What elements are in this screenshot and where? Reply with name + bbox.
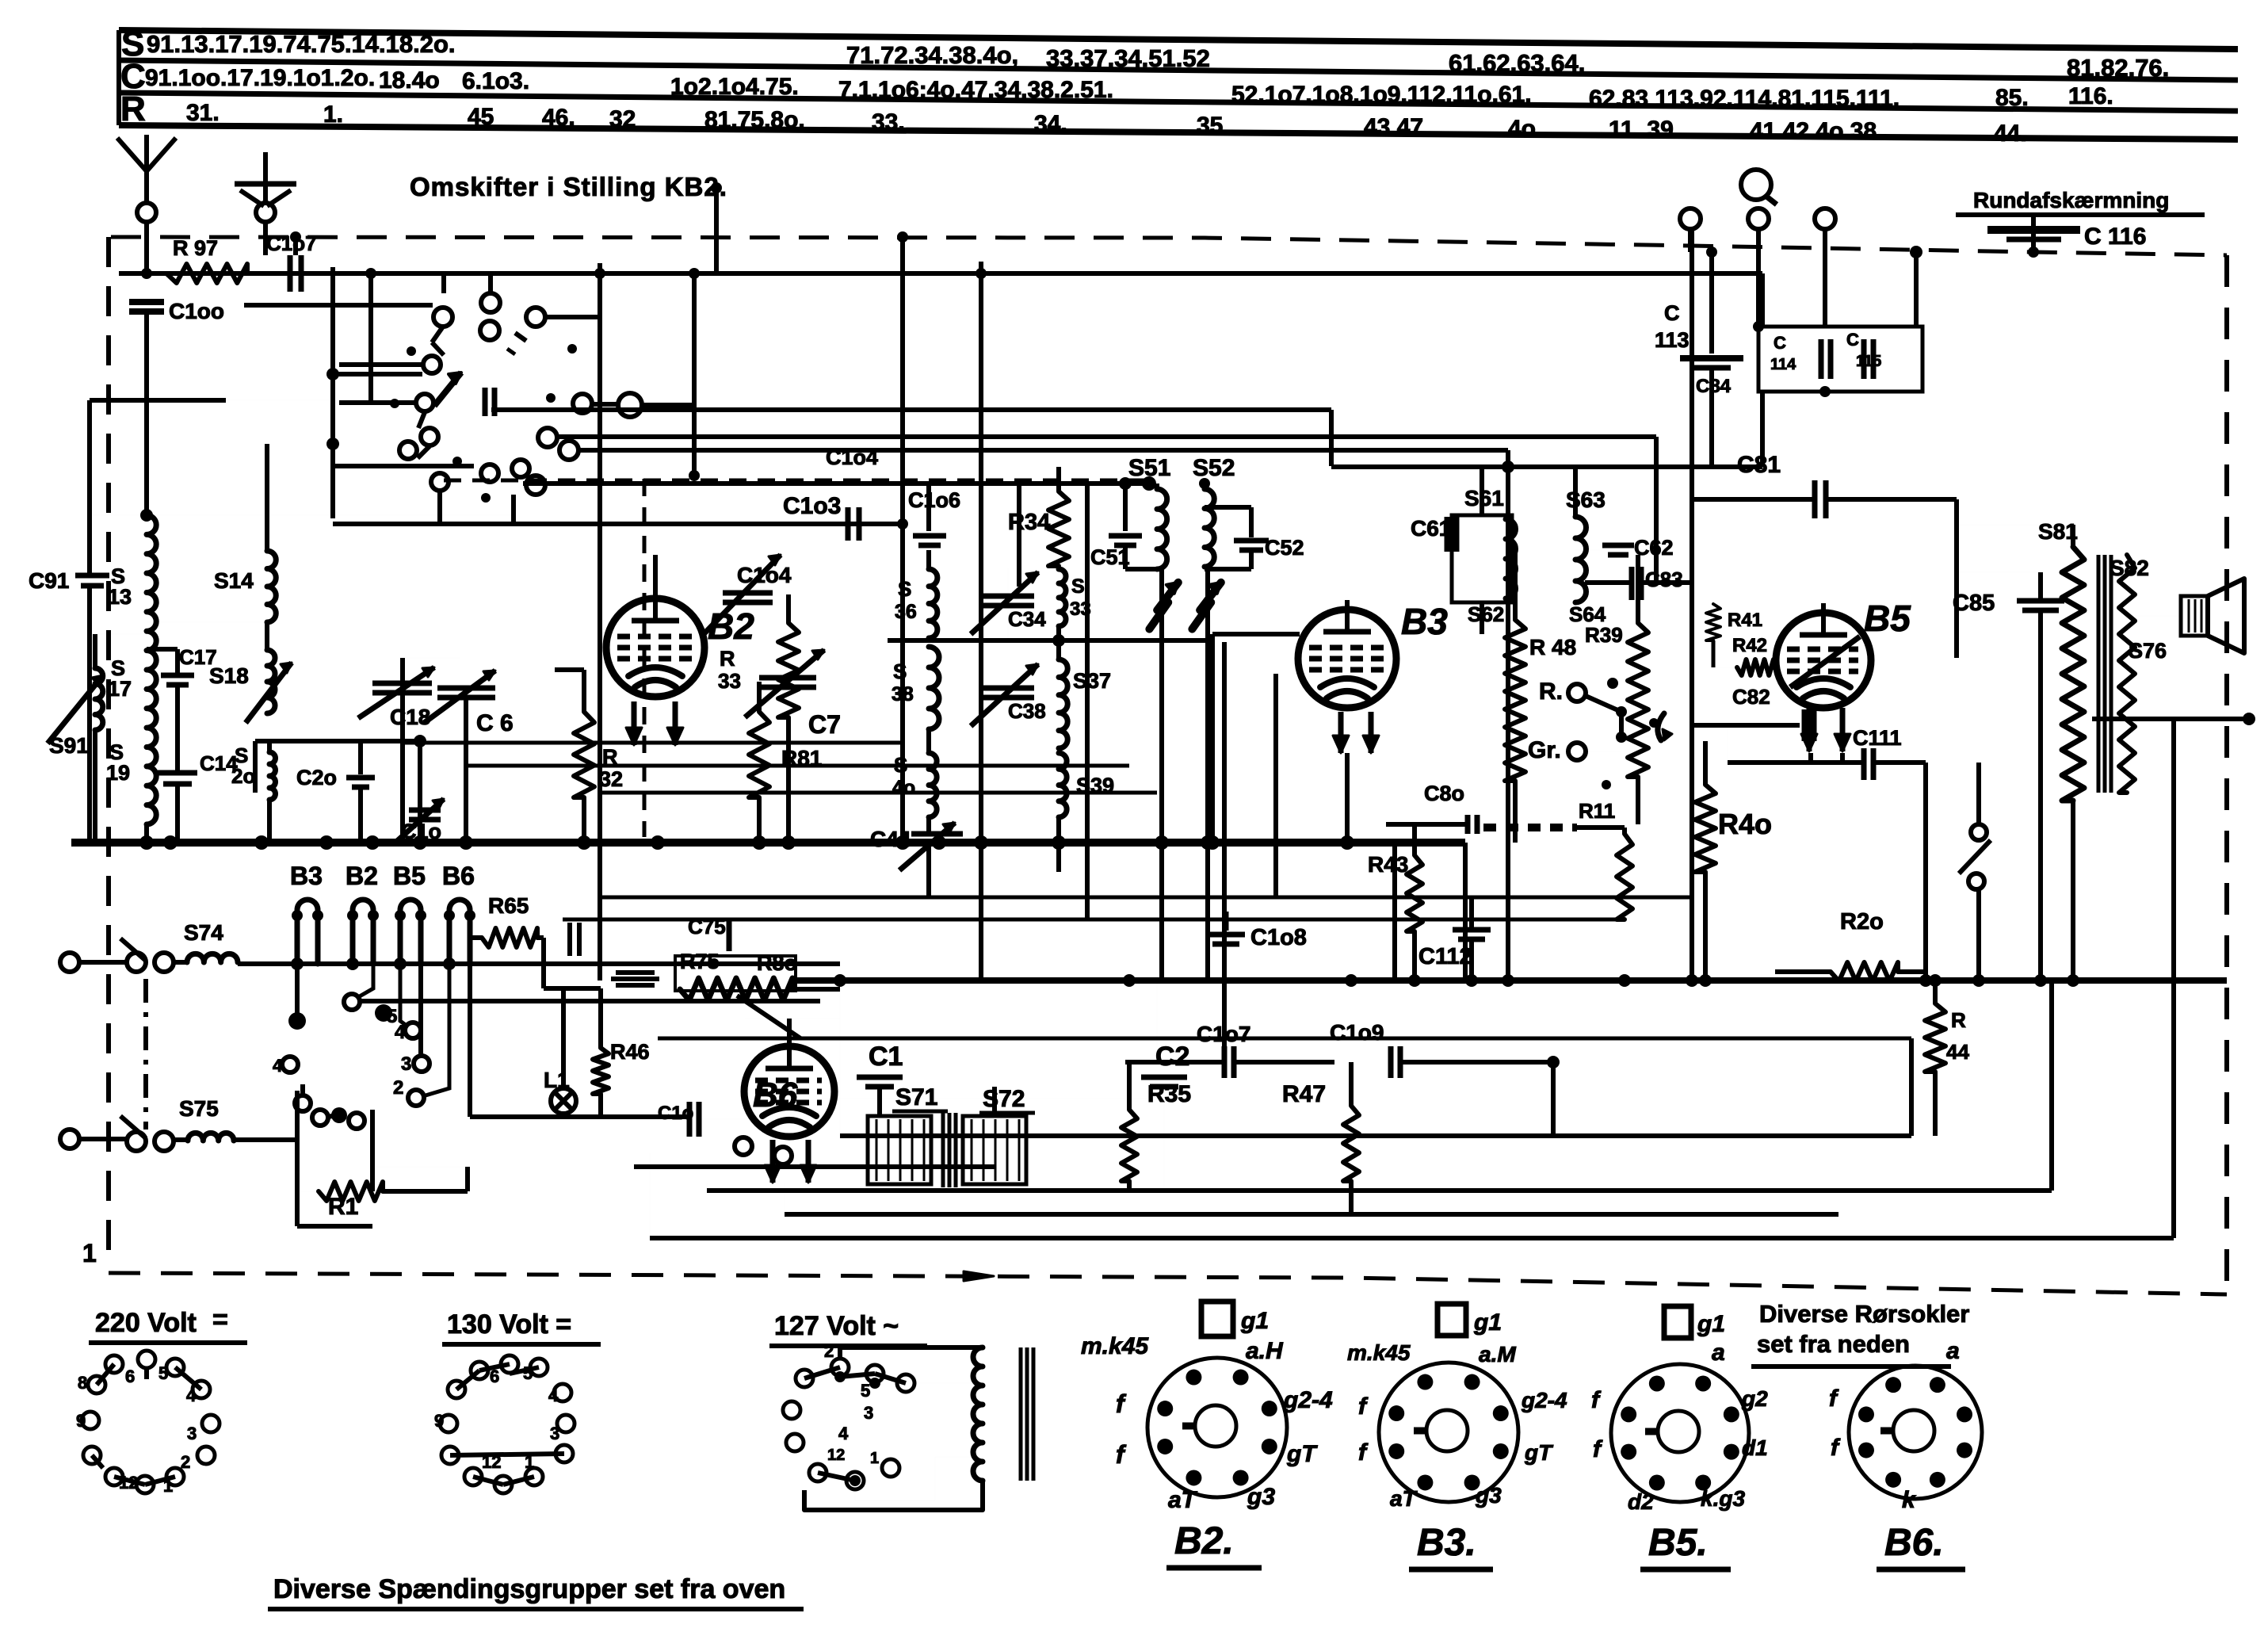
wire vertical x2135 [1690,229,1694,980]
wire bus y517 [491,407,1331,412]
svg-text:6.1o3.: 6.1o3. [462,68,529,94]
wire vertical x757 [598,263,602,843]
svg-text:C1: C1 [869,1042,903,1072]
capacitors C114 C115 box [1758,327,1922,392]
svg-text:S76: S76 [2129,639,2167,663]
svg-text:62.83 113.92.114.81.115.111.: 62.83 113.92.114.81.115.111. [1589,86,1900,112]
svg-text:4: 4 [186,1386,197,1405]
wire bus y589 [1331,464,1762,469]
svg-text:38: 38 [892,683,914,705]
svg-text:S72: S72 [983,1086,1025,1112]
svg-text:set fra neden: set fra neden [1757,1330,1910,1358]
svg-text:85.: 85. [1995,85,2029,111]
svg-text:33.: 33. [872,109,905,136]
tube B2 [606,598,704,697]
svg-text:g1: g1 [1697,1311,1725,1337]
wire switch left rail [330,267,335,518]
svg-text:31.: 31. [186,100,220,126]
pin g1 square B3 [1438,1304,1466,1336]
svg-text:Gr.: Gr. [1528,737,1561,763]
wire bus y1237 [794,977,2227,984]
svg-text:gT: gT [1286,1441,1318,1467]
svg-text:36: 36 [895,601,917,623]
svg-text:3: 3 [187,1424,197,1443]
svg-text:11. 39.: 11. 39. [1609,117,1680,143]
wire vertical x1545 [1222,642,1227,1046]
capacitor C44 variable [911,831,963,837]
svg-text:C7: C7 [808,710,841,739]
svg-text:C1o6: C1o6 [908,488,960,512]
switch bar contact [483,388,488,416]
svg-text:Diverse Spændingsgrupper set f: Diverse Spændingsgrupper set fra oven [273,1574,785,1604]
svg-text:B6: B6 [442,862,475,890]
svg-text:34.: 34. [1034,111,1067,137]
svg-text:1: 1 [525,1452,534,1472]
svg-text:81.82.76.: 81.82.76. [2067,54,2169,82]
svg-text:a: a [1712,1340,1725,1366]
svg-text:B2: B2 [346,862,378,890]
svg-text:g2-4: g2-4 [1521,1388,1567,1412]
wire power y1532 [785,1212,1838,1217]
svg-text:R4o: R4o [1718,808,1772,840]
socket 220V pins [105,1355,123,1373]
socket 130V pins [471,1362,488,1379]
svg-text:C18: C18 [390,705,430,729]
transformer 127V winding [973,1347,983,1481]
svg-text:g3: g3 [1247,1484,1275,1510]
tube B5 cathode arrows [1807,708,1812,751]
coil S91 variable [95,668,103,730]
svg-text:C82: C82 [1732,685,1770,709]
coil S74 [187,954,238,962]
svg-text:52.1o7.1o8.1o9.112.11o.61.: 52.1o7.1o8.1o9.112.11o.61. [1231,82,1532,108]
switch S right [1971,824,1987,840]
resistor R97 [166,264,247,283]
svg-text:2: 2 [393,1077,403,1099]
border dash-dot segment [143,979,148,1130]
svg-text:g2-4: g2-4 [1283,1387,1333,1413]
svg-text:R 97: R 97 [173,236,218,260]
svg-text:B5: B5 [1864,598,1911,639]
svg-text:8: 8 [78,1373,87,1393]
svg-text:C1o9: C1o9 [1330,1020,1384,1045]
wire bus y1310 [658,1037,1911,1041]
wires terminal drops [1688,229,1693,252]
coil S37 [1059,659,1067,748]
svg-text:4o: 4o [892,777,915,799]
svg-text:C52: C52 [1265,536,1304,560]
wire power y1433 [840,1133,1911,1138]
coil S20 tank [255,739,420,743]
parts value table [119,30,2238,49]
svg-text:114: 114 [1770,356,1796,373]
svg-text:a.H: a.H [1246,1338,1284,1364]
node coil column top [140,509,153,522]
capacitor C10 variable [409,808,441,813]
coil S18 [267,650,275,713]
svg-text:12: 12 [827,1447,845,1464]
wire power y1502 [707,1188,2052,1193]
wire bus y1132 [602,896,1692,900]
coil S40 [929,753,937,817]
svg-text:S74: S74 [184,920,223,945]
svg-text:S91: S91 [49,733,89,758]
svg-text:S63: S63 [1566,487,1606,512]
svg-text:gT: gT [1524,1440,1554,1465]
wire vertical x1903 [1506,467,1510,980]
svg-text:C91: C91 [29,568,69,593]
svg-text:R1: R1 [328,1194,358,1220]
svg-text:R.: R. [1539,678,1563,705]
svg-text:S71: S71 [895,1084,937,1110]
resistor R40 [1695,785,1716,872]
svg-text:33.37.34.51.52: 33.37.34.51.52 [1046,44,1210,72]
svg-text:B3.: B3. [1417,1522,1476,1564]
svg-text:S52: S52 [1193,455,1235,481]
svg-text:3: 3 [401,1053,411,1075]
svg-text:R42: R42 [1732,635,1767,656]
svg-text:=: = [212,1305,228,1335]
svg-text:C38: C38 [1008,699,1046,723]
svg-text:C1o4: C1o4 [826,445,878,469]
capacitor C62 [1602,543,1634,549]
switch S76 wire [2092,717,2251,721]
capacitor C6 variable [437,686,495,691]
svg-text:C85: C85 [1953,591,1995,616]
tube B6 [744,1046,834,1137]
svg-text:B6.: B6. [1884,1522,1944,1564]
svg-text:S18: S18 [209,663,249,688]
svg-text:R34: R34 [1008,510,1050,535]
svg-text:C34: C34 [1008,607,1046,631]
resistor R33 [778,623,799,717]
ground symbol [263,152,268,203]
svg-text:R35: R35 [1147,1081,1191,1107]
svg-text:44: 44 [1946,1040,1969,1064]
svg-text:32: 32 [599,767,623,791]
tube B3 [1298,610,1396,708]
svg-text:aT: aT [1168,1487,1198,1513]
svg-text:R: R [1951,1008,1966,1032]
coil S52 [1205,489,1214,567]
tank S52 C52 [1202,484,1207,489]
resistor R81 [749,712,769,797]
svg-text:12: 12 [119,1473,138,1493]
antenna terminal [137,203,156,222]
switch S74 [60,953,79,972]
resistor R48 [1505,620,1525,781]
shield border dashed top [111,237,2227,255]
shield border dashed left [106,237,111,1268]
svg-text:32: 32 [609,106,636,132]
coil S38 [929,647,939,729]
svg-text:116.: 116. [2068,83,2113,109]
wire vertical x876 [692,272,697,476]
tube B5 [1776,613,1871,708]
svg-text:m.k45: m.k45 [1081,1333,1149,1359]
svg-text:44.: 44. [1994,120,2027,147]
svg-text:aT: aT [1390,1486,1418,1511]
svg-text:C 116: C 116 [2084,224,2146,250]
svg-text:C 6: C 6 [476,710,514,736]
svg-text:C111: C111 [1853,726,1902,750]
svg-text:C2o: C2o [296,766,337,789]
svg-text:3: 3 [864,1403,873,1423]
capacitor C38 variable [983,686,1034,691]
svg-text:113: 113 [1655,328,1690,352]
svg-text:91.13.17.19.74.75.14.18.2o.: 91.13.17.19.74.75.14.18.2o. [147,30,456,58]
svg-text:2: 2 [824,1341,834,1361]
capacitor C100 [129,299,164,305]
svg-text:C1o7: C1o7 [1197,1022,1250,1046]
svg-text:C83: C83 [1645,568,1683,591]
svg-text:130 Volt =: 130 Volt = [447,1309,571,1340]
svg-text:6: 6 [125,1367,135,1386]
antenna [144,171,149,203]
capacitor C7 variable [759,675,816,681]
svg-text:k: k [1902,1487,1916,1513]
resistor R1 [319,1182,383,1201]
svg-text:Rundafskærmning: Rundafskærmning [1973,188,2169,212]
svg-text:4: 4 [273,1056,283,1076]
svg-text:81.75.8o.: 81.75.8o. [704,107,805,133]
svg-text:S14: S14 [214,568,254,593]
svg-text:S: S [893,659,907,683]
svg-text:g1: g1 [1473,1309,1502,1336]
svg-text:1: 1 [163,1476,173,1496]
svg-text:5: 5 [387,1006,397,1027]
svg-text:R11: R11 [1579,799,1615,823]
svg-text:R39: R39 [1585,623,1623,647]
switch S75 [60,1130,79,1149]
capacitor C107b line [1156,980,1158,1062]
chassis bus [71,839,1465,847]
svg-text:S62: S62 [1468,602,1504,626]
wire top centre vertical [714,188,719,273]
svg-text:S: S [898,577,911,601]
core adjust arrows [1149,583,1178,629]
svg-text:B3: B3 [1401,601,1448,642]
svg-text:9: 9 [76,1411,86,1431]
svg-text:k.g3: k.g3 [1701,1486,1745,1511]
svg-text:Omskifter i Stilling KB2.: Omskifter i Stilling KB2. [410,172,727,201]
svg-text:C81: C81 [1737,452,1781,478]
coil S36 [929,569,937,638]
wire bus y1160 [563,918,1625,922]
ground terminal [256,203,275,222]
pin g1 square B2 [1201,1302,1233,1336]
terminals top right [1680,208,1701,229]
svg-text:43.47: 43.47 [1364,114,1423,140]
capacitor C18 variable [372,681,432,686]
svg-text:S: S [1071,575,1085,598]
svg-text:R46: R46 [610,1040,650,1064]
svg-text:R: R [720,647,735,671]
svg-text:C: C [1846,330,1859,350]
svg-text:B2.: B2. [1174,1520,1234,1562]
tube socket B5 [1611,1364,1749,1502]
svg-text:2o: 2o [231,764,255,788]
svg-text:B5.: B5. [1648,1522,1708,1564]
svg-text:C2: C2 [1155,1042,1189,1072]
svg-text:115: 115 [1856,353,1881,370]
svg-text:C1o8: C1o8 [1250,925,1307,950]
wire power y1562 [650,1236,2174,1240]
svg-text:71.72.34.38.4o,: 71.72.34.38.4o, [846,41,1018,69]
svg-text:18.4o: 18.4o [379,67,440,94]
speaker [2181,596,2208,636]
tube socket B6 [1849,1366,1982,1499]
resistor R34 [1048,491,1069,566]
capacitor C34 variable [983,594,1034,599]
svg-text:R: R [120,90,146,128]
svg-text:C1o3: C1o3 [783,493,841,519]
wire bus y568 [578,448,1508,453]
svg-text:C8o: C8o [1424,782,1464,805]
rotary switch contacts [441,272,446,293]
capacitor C17 [147,647,178,652]
svg-text:R47: R47 [1282,1081,1326,1107]
tube socket B3 [1379,1363,1518,1502]
svg-text:R2o: R2o [1840,909,1884,935]
inner dashed box [643,479,647,837]
wire top bus [119,271,1762,276]
coil S75 [188,1133,234,1141]
wire vertical x1139 [900,237,905,843]
svg-text:m.k45: m.k45 [1347,1340,1411,1365]
tube B3 cathode arrows [1338,712,1344,753]
resistor R47 [1343,1106,1359,1181]
svg-text:B5: B5 [393,862,426,890]
capacitor C103 [745,522,903,526]
border arrow [964,1271,994,1281]
pin g1 square B5 [1664,1306,1691,1338]
svg-text:3: 3 [550,1424,559,1443]
wire bus y610 [523,481,1149,486]
coil S13 S17 S19 [147,515,156,824]
svg-text:C51: C51 [1090,545,1130,569]
svg-text:5: 5 [523,1363,533,1383]
resistor R43 [1407,855,1422,931]
svg-text:4: 4 [548,1386,559,1405]
svg-text:4: 4 [838,1424,849,1443]
svg-text:C75: C75 [688,915,726,938]
svg-text:R41: R41 [1728,610,1762,631]
svg-text:33: 33 [718,669,741,693]
wire antenna drop [144,222,149,273]
svg-text:2: 2 [181,1452,190,1472]
svg-text:61.62.63.64.: 61.62.63.64. [1449,49,1585,77]
svg-text:C: C [1664,301,1680,325]
svg-text:B6: B6 [753,1076,798,1114]
svg-text:5: 5 [158,1363,168,1383]
svg-text:C84: C84 [1696,376,1732,397]
svg-text:g3: g3 [1475,1483,1502,1508]
svg-text:a: a [1946,1338,1960,1364]
shield border dashed right [2224,255,2229,1294]
svg-text:R65: R65 [488,893,529,918]
svg-text:g2: g2 [1741,1386,1768,1411]
tube socket B2 [1147,1358,1287,1497]
svg-text:127 Volt ~: 127 Volt ~ [774,1311,899,1341]
wire junction drop [368,273,373,400]
svg-text:g1: g1 [1240,1308,1269,1334]
coil S61 [1506,519,1516,598]
svg-text:45: 45 [468,104,494,130]
svg-text:1: 1 [82,1239,97,1267]
capacitor C104 variable [723,591,773,596]
svg-text:a.M: a.M [1479,1342,1516,1367]
wire bus y551 [557,434,1656,439]
resistor R35 [1121,1110,1137,1181]
svg-text:4o: 4o [1508,116,1536,142]
capacitor C107 [288,255,293,292]
pickup symbol Q [1741,170,1771,200]
svg-text:9: 9 [434,1411,444,1431]
svg-text:17: 17 [108,677,132,701]
svg-text:5: 5 [861,1381,870,1401]
svg-text:6: 6 [490,1367,499,1386]
wire junction dashed [1910,246,1922,258]
wire vertical x1238 [979,262,983,980]
svg-text:41.42 4o.38: 41.42 4o.38 [1750,118,1877,144]
svg-text:35: 35 [1197,113,1223,139]
jack contact wires [295,964,300,1017]
svg-text:19: 19 [106,761,130,785]
svg-text:S37: S37 [1073,669,1111,693]
svg-text:R 48: R 48 [1529,635,1576,659]
svg-text:46.: 46. [542,105,575,131]
svg-text:1.: 1. [323,101,343,128]
capacitor C75 small [567,923,572,956]
svg-text:1o2.1o4.75.: 1o2.1o4.75. [670,74,799,100]
svg-text:12: 12 [482,1452,501,1472]
coil S51 [1157,489,1167,569]
svg-text:91.1oo.17.19.1o1.2o.: 91.1oo.17.19.1o1.2o. [145,65,375,91]
svg-text:220 Volt: 220 Volt [95,1308,197,1338]
switch wiper arrow [434,373,461,406]
coil S63 [1575,517,1586,602]
coil S14 [267,551,276,622]
tank S61 S62 [1452,515,1512,602]
wire left block top [90,398,226,403]
resistor R39 [1628,623,1648,777]
tube B6 cathode arrows [770,1140,776,1183]
svg-text:7.1.1o6:4o.47.34.38.2.51.: 7.1.1o6:4o.47.34.38.2.51. [838,77,1113,103]
resistor R32 [574,712,594,797]
svg-text:C112: C112 [1418,944,1472,969]
svg-text:C1oo: C1oo [169,299,224,323]
coil S39 [1059,753,1067,817]
svg-text:B3: B3 [290,862,323,890]
resistor R46 [593,1048,609,1094]
svg-text:d2: d2 [1628,1489,1654,1514]
tube B2 cathode arrows [632,701,637,745]
svg-text:1: 1 [870,1450,879,1467]
svg-text:R43: R43 [1368,852,1408,877]
coil S33 [1059,569,1066,626]
svg-text:C: C [1774,333,1786,353]
svg-text:d1: d1 [1742,1435,1768,1460]
svg-text:13: 13 [108,585,132,609]
svg-text:Diverse Rørsokler: Diverse Rørsokler [1759,1300,1969,1328]
svg-text:C1o4: C1o4 [737,563,792,587]
capacitor C108 [1224,912,1229,931]
svg-text:S75: S75 [179,1096,219,1121]
shield border dashed bottom [109,1273,2227,1294]
capacitor C116 [2031,216,2036,252]
svg-text:R75: R75 [680,950,720,973]
